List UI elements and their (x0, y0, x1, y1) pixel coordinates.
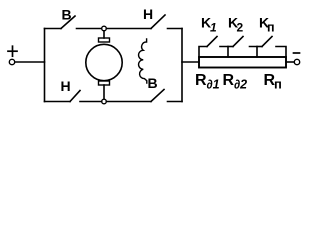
wire bar Kn (257, 46, 262, 48)
terminal minus circle (294, 59, 299, 64)
svg-text:R: R (223, 72, 235, 89)
svg-text:Н: Н (60, 78, 70, 94)
wire top-right (168, 28, 183, 30)
motor armature M1 (86, 44, 122, 80)
switch B top-left blade (61, 16, 75, 29)
svg-text:R: R (195, 72, 207, 89)
switch K2 blade (233, 37, 243, 47)
label B top-left (61, 7, 71, 23)
motor brush bottom (99, 81, 110, 85)
wire right rail (181, 29, 183, 102)
label Rd2 (223, 72, 248, 92)
wire bar K2 (228, 46, 233, 48)
svg-text:п: п (267, 21, 275, 35)
wire top-left (45, 28, 62, 30)
node top junction (102, 26, 107, 31)
label B bottom-right (147, 75, 157, 91)
wire brush to bottom node (103, 85, 105, 99)
switch H bottom-left blade (70, 91, 80, 102)
switch H top-right blade (151, 15, 165, 29)
switch K1 blade (207, 37, 217, 47)
wire node to brush (103, 31, 105, 38)
wire box to minus terminal (286, 61, 294, 63)
label Rd1 (195, 72, 220, 92)
inductor field winding (139, 39, 147, 83)
terminal plus label (8, 50, 17, 52)
label minus (294, 52, 300, 54)
node bottom junction (102, 99, 107, 104)
resistor box R (199, 57, 286, 68)
wire H to bottom node (80, 101, 102, 103)
wire bottom-left (45, 101, 71, 103)
svg-text:1: 1 (210, 21, 217, 35)
svg-text:Н: Н (143, 6, 153, 22)
wire B to top node (77, 28, 102, 30)
wire bottom-right (168, 101, 183, 103)
wire left rail (44, 29, 46, 102)
switch B bottom-right blade (151, 90, 164, 102)
label H bottom-left (60, 78, 70, 94)
svg-text:В: В (147, 75, 157, 91)
wire staple left (199, 47, 207, 58)
wire top node to switch H (106, 28, 151, 30)
label K2 (228, 15, 244, 35)
label Rp (264, 72, 282, 92)
label K1 (201, 15, 217, 35)
wire staple right (276, 47, 286, 58)
wire plus to left rail (15, 61, 45, 63)
svg-text:В: В (61, 7, 71, 23)
svg-text:∂2: ∂2 (234, 78, 247, 92)
switch Kn blade (262, 37, 272, 47)
wire tap 1 (220, 47, 228, 58)
svg-text:2: 2 (237, 21, 244, 35)
svg-text:∂1: ∂1 (207, 78, 220, 92)
svg-text:п: п (274, 77, 282, 92)
label Kn (259, 15, 275, 35)
wire feed to resistor box (182, 61, 199, 63)
label H top-right (143, 6, 153, 22)
wire bottom node to switch B (106, 101, 151, 103)
motor brush top (99, 38, 110, 42)
wire tap 2 (250, 47, 258, 58)
terminal plus circle (9, 59, 14, 64)
